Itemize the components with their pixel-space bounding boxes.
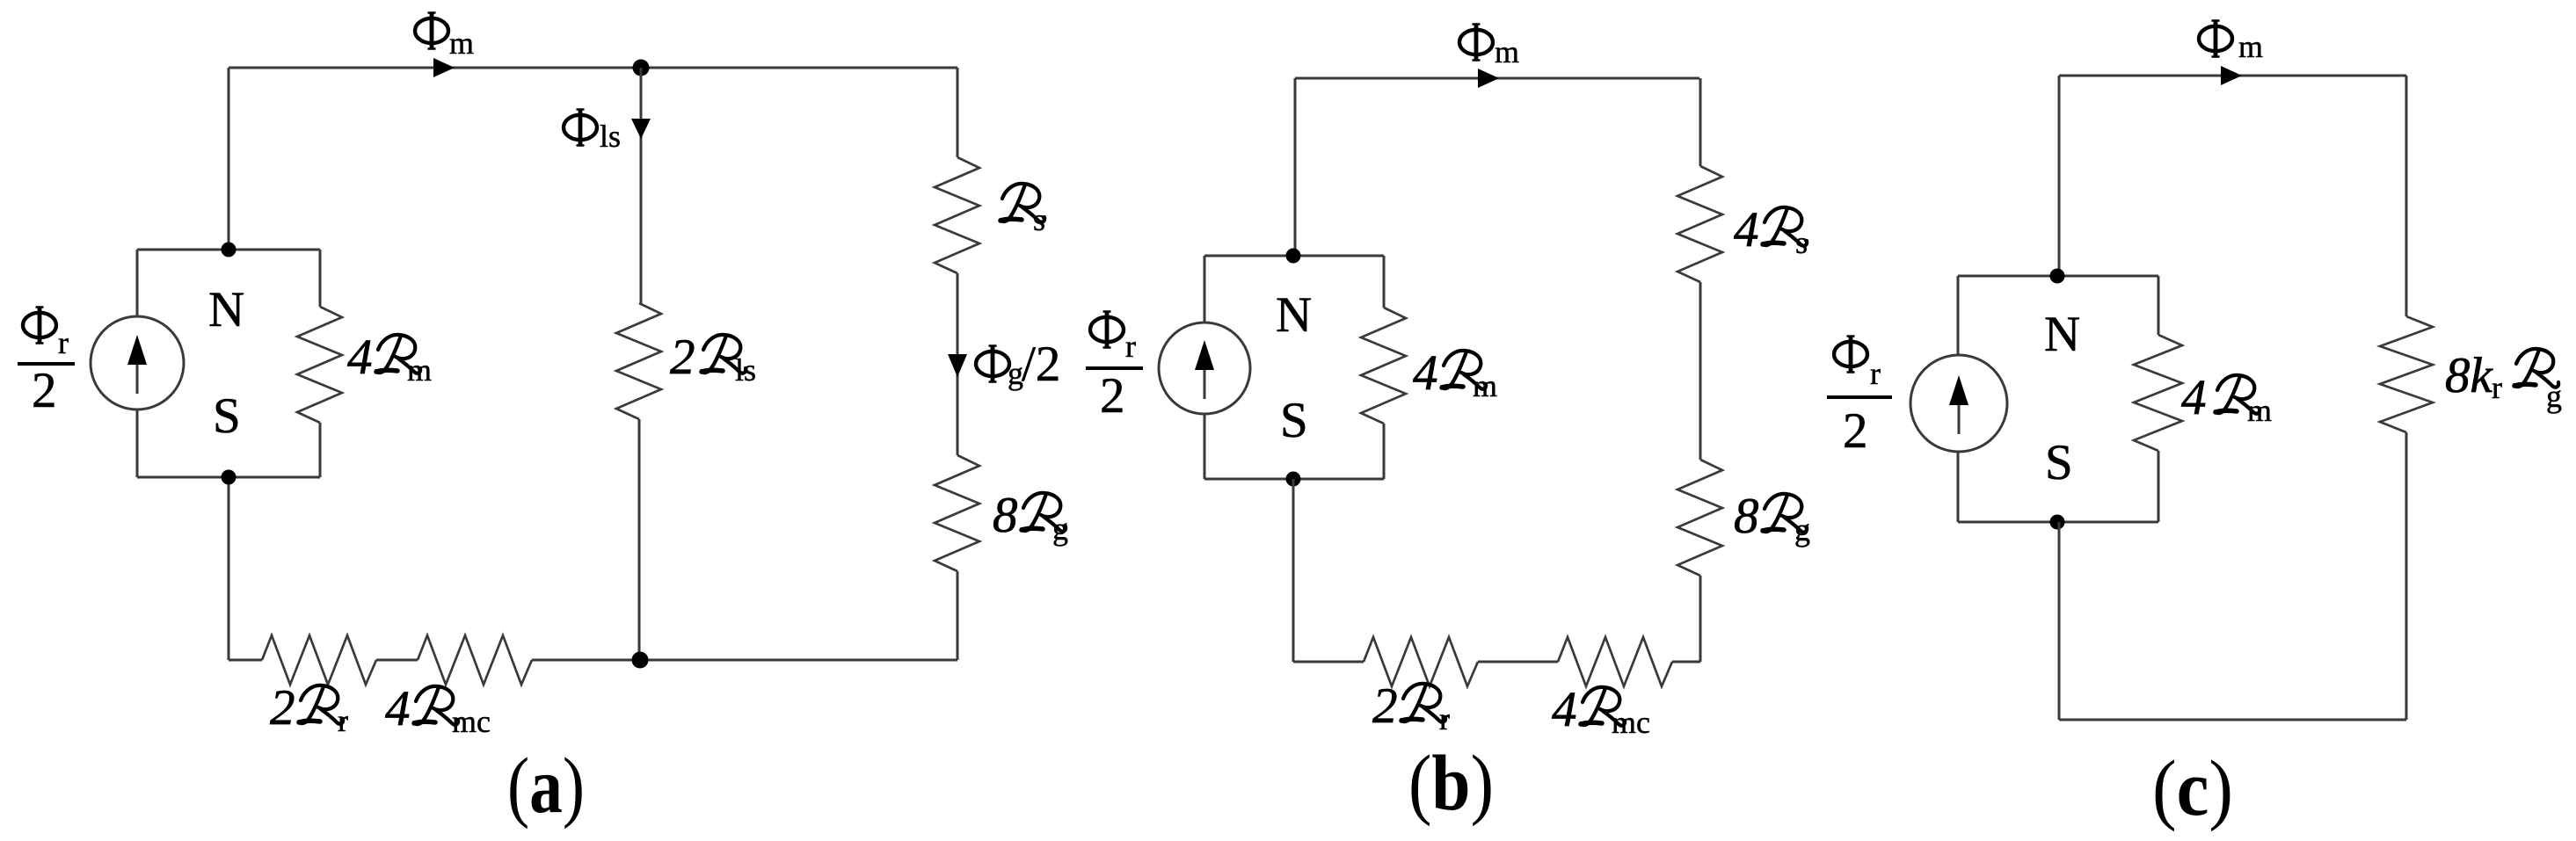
svg-text:S: S xyxy=(1280,393,1308,448)
svg-text:2: 2 xyxy=(270,680,295,736)
svg-text:ls: ls xyxy=(735,352,756,388)
svg-text:4: 4 xyxy=(385,681,411,736)
node A2 (a) bottom junction xyxy=(632,652,649,669)
svg-text:8: 8 xyxy=(993,488,1018,543)
svg-text:/2: /2 xyxy=(1022,337,1060,392)
fraction bar (a) xyxy=(18,362,75,366)
wire a: top horizontal xyxy=(229,67,957,69)
wire b: left vertical upper xyxy=(1294,78,1297,256)
svg-text:4: 4 xyxy=(1734,202,1759,257)
flux source arrow (b) xyxy=(1204,367,1206,399)
svg-text:s: s xyxy=(1795,225,1808,260)
wire a: bottom middle segment xyxy=(376,659,418,662)
arrow of flux Phi_g/2 (a) xyxy=(948,354,967,377)
svg-text:(c): (c) xyxy=(2152,745,2233,832)
flux source circle (b) xyxy=(1159,323,1250,414)
svg-text:m: m xyxy=(2238,29,2263,64)
magnet box (c) left edge lower xyxy=(1957,452,1960,522)
magnet box (b) top edge xyxy=(1204,255,1384,257)
wire a: bottom right segment xyxy=(532,659,957,662)
svg-text:s: s xyxy=(1033,202,1045,237)
svg-text:2: 2 xyxy=(1100,368,1125,424)
node b: magnet bottom terminal xyxy=(1286,472,1301,487)
label Rs value xyxy=(1001,184,1044,222)
fraction bar (c) xyxy=(1827,395,1892,399)
svg-text:r: r xyxy=(1439,701,1450,736)
resistor Rs (a) xyxy=(935,157,979,273)
svg-text:N: N xyxy=(1276,287,1312,343)
wire a: right branch middle xyxy=(957,273,959,455)
label Phi_r/2 source value (a) xyxy=(23,307,56,344)
svg-text:4: 4 xyxy=(1552,682,1577,737)
label Phi_m (c) xyxy=(2199,20,2232,58)
wire b: right vertical middle xyxy=(1699,282,1702,460)
node a: magnet bottom terminal xyxy=(222,470,236,485)
wire a: right branch lower xyxy=(957,571,959,660)
node a: magnet top terminal xyxy=(222,243,236,257)
svg-text:(b): (b) xyxy=(1408,740,1494,827)
resistor 2Rls (a) xyxy=(616,303,661,419)
svg-text:m: m xyxy=(1473,368,1497,403)
magnet box (b) left edge upper xyxy=(1204,256,1206,323)
resistor 4Rm (b) xyxy=(1361,308,1406,424)
label Phi_ls (a) xyxy=(564,109,597,147)
svg-text:2: 2 xyxy=(1372,678,1398,734)
flux source circle (c) xyxy=(1910,355,2007,452)
resistor 8Rg (b) xyxy=(1677,460,1722,576)
magnet box (c) right edge upper xyxy=(2158,276,2160,335)
magnet box (b) left edge lower xyxy=(1204,414,1206,479)
svg-text:r: r xyxy=(1125,329,1136,364)
svg-text:m: m xyxy=(1495,34,1519,69)
svg-text:mc: mc xyxy=(1612,705,1650,740)
resistor 8krRg (c) xyxy=(2380,316,2433,432)
svg-text:4: 4 xyxy=(1413,345,1438,401)
resistor 4Rs (b) xyxy=(1677,166,1722,282)
svg-text:ls: ls xyxy=(600,119,621,154)
magnet box (b) right edge lower xyxy=(1383,424,1386,479)
svg-text:N: N xyxy=(208,282,244,337)
node b: magnet top terminal xyxy=(1286,249,1301,264)
resistor 2Rr (b) xyxy=(1364,637,1478,686)
arrow of flux Phi_m (a) xyxy=(433,58,455,77)
svg-text:m: m xyxy=(2247,393,2272,428)
svg-text:g: g xyxy=(2546,379,2562,414)
svg-text:r: r xyxy=(338,703,348,738)
wire c: top horizontal xyxy=(2059,75,2406,77)
wire a: bottom left segment xyxy=(229,659,262,662)
svg-text:2: 2 xyxy=(32,363,57,418)
wire b: left vertical lower xyxy=(1292,479,1295,662)
svg-text:r: r xyxy=(58,325,69,360)
svg-text:r: r xyxy=(2492,370,2502,405)
resistor 4Rmc (a) xyxy=(418,635,532,685)
wire b: right vertical lower xyxy=(1699,576,1702,662)
magnet box (c) bottom edge xyxy=(1958,521,2158,524)
label Phi_m (b) xyxy=(1459,24,1493,62)
wire c: left vertical lower xyxy=(2058,522,2061,720)
svg-text:4: 4 xyxy=(347,330,373,385)
wire a: right vertical upper xyxy=(957,68,959,157)
svg-text:m: m xyxy=(449,25,474,61)
flux source circle (a) xyxy=(91,316,184,410)
resistor 4Rmc (b) xyxy=(1558,637,1672,686)
resistor 2Rr (a) xyxy=(262,635,376,685)
magnet box (c) left edge upper xyxy=(1957,276,1960,355)
magnet box (a) left edge upper xyxy=(136,250,139,316)
label Phi_r/2 source value (b) xyxy=(1090,311,1124,349)
flux source arrow (c) xyxy=(1958,402,1961,434)
wire b: bottom left segment xyxy=(1293,661,1364,663)
svg-text:4: 4 xyxy=(2181,370,2207,425)
magnet box (a) left edge lower xyxy=(136,410,139,477)
svg-text:8k: 8k xyxy=(2445,348,2494,403)
node A1 (a) top junction xyxy=(633,60,650,76)
magnet box (c) right edge lower xyxy=(2158,451,2160,522)
arrow of flux Phi_m (c) xyxy=(2221,66,2242,85)
wire a: left vertical below magnet box xyxy=(228,477,230,660)
magnet box (c) top edge xyxy=(1958,275,2158,278)
wire b: right vertical upper xyxy=(1699,78,1702,166)
wire b: bottom right segment xyxy=(1672,661,1700,663)
wire b: top horizontal xyxy=(1295,77,1699,80)
resistor 4Rm (c) xyxy=(2134,335,2182,451)
magnet box (a) right edge upper xyxy=(319,250,322,307)
svg-text:2: 2 xyxy=(670,330,695,385)
label Phi_r/2 source value (c) xyxy=(1834,336,1867,373)
svg-text:m: m xyxy=(407,352,432,388)
svg-text:S: S xyxy=(2045,435,2073,490)
wire a: middle branch upper xyxy=(640,68,643,303)
resistor 8Rg (a) xyxy=(935,455,979,571)
wire a: middle branch lower xyxy=(638,419,641,660)
svg-text:S: S xyxy=(213,388,241,444)
magnet box (a) bottom edge xyxy=(137,476,320,479)
fraction bar (b) xyxy=(1086,366,1143,370)
svg-text:mc: mc xyxy=(452,704,491,739)
svg-text:(a): (a) xyxy=(507,743,585,830)
flux source arrow (a) xyxy=(136,362,139,394)
svg-text:2: 2 xyxy=(1843,403,1868,459)
svg-text:8: 8 xyxy=(1734,489,1759,544)
wire c: right vertical upper xyxy=(2405,76,2408,316)
node c: magnet bottom terminal xyxy=(2050,515,2065,530)
svg-text:r: r xyxy=(1870,356,1881,391)
magnet box (a) right edge lower xyxy=(319,423,322,477)
wire a: left vertical from top to magnet box xyxy=(228,68,230,250)
resistor 4Rm (a) xyxy=(297,307,342,423)
label Phi_g/2 (a) xyxy=(976,345,1009,383)
wire c: bottom horizontal xyxy=(2059,719,2406,721)
arrow of flux Phi_ls (a) xyxy=(631,119,651,139)
wire b: bottom middle segment xyxy=(1478,661,1558,663)
svg-text:g: g xyxy=(1794,512,1810,547)
magnet box (b) bottom edge xyxy=(1204,478,1384,481)
node c: magnet top terminal xyxy=(2050,269,2065,284)
arrow of flux Phi_m (b) xyxy=(1478,69,1499,88)
wire c: right vertical lower xyxy=(2405,432,2408,720)
magnet box (a) top edge xyxy=(137,249,320,251)
svg-text:N: N xyxy=(2044,307,2080,362)
label Phi_m (a) xyxy=(415,12,448,50)
wire c: left vertical upper xyxy=(2058,76,2061,276)
svg-text:g: g xyxy=(1052,511,1068,547)
magnet box (b) right edge upper xyxy=(1383,256,1386,308)
